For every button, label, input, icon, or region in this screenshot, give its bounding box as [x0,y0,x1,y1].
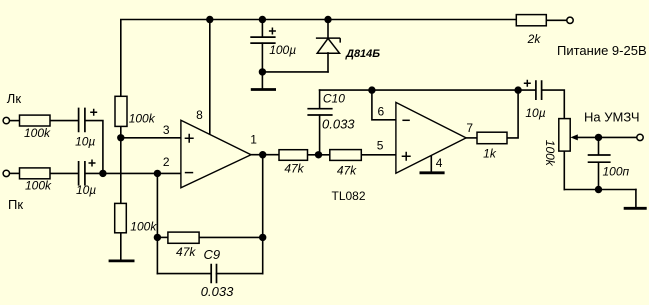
wire node to zener anode [262,71,328,73]
wire op-amp U1 output [251,154,279,156]
junction divider pin3 [117,134,124,141]
resistor 1k [477,132,507,144]
wire node to C 100n [598,137,600,154]
capacitor C10 plates [307,109,332,115]
svg-text:47k: 47k [176,245,196,259]
junction pin6 node [368,86,375,93]
wire pin2 line [86,172,181,174]
wire C 100n to bottom node [598,163,600,190]
wire output1 vertical [262,155,264,274]
svg-text:100п: 100п [603,165,630,179]
junction C10 node [315,151,322,158]
wire pin3 line [121,137,181,139]
capacitor 10u row2 plates [79,161,85,186]
svg-text:2: 2 [163,155,170,169]
ground bar pin4 [420,171,445,174]
wire input1 terminal to R 100k [10,120,20,122]
wire C10 upper lead [319,90,321,108]
plus sign capacitor 10u row2 [89,160,96,167]
svg-text:10µ: 10µ [76,183,96,197]
wire R 100k to C 10u row1 [50,120,78,122]
op-amp U2 triangle [396,102,466,173]
svg-text:2k: 2k [527,32,542,46]
wire rail to C 100u top [261,20,263,38]
junction feedback 47k right [259,234,266,241]
junction 100u ground node [259,68,266,75]
resistor 100k input1 [20,115,51,126]
wire 1k to feedback node [507,90,518,138]
wire pin8 supply to op-amp U1 [209,20,211,135]
capacitor 100n plates [588,155,611,162]
wire top supply rail [121,20,517,97]
junction feedback top node [514,86,521,93]
wire pin2 node down to feedback [156,173,158,273]
wire 47k to output vertical [199,236,263,238]
ground bar under 100u [251,88,276,91]
junction rail 100u [259,16,266,23]
resistor 100k divider bottom [115,203,127,232]
svg-text:100k: 100k [543,140,557,167]
capacitor 10u row1 plates [79,108,85,133]
wire top feedback line [320,89,518,91]
wire to ground right [635,190,637,207]
terminal input2 [3,170,9,176]
capacitor 10u output plates [536,80,542,100]
svg-text:47k: 47k [284,162,304,176]
op-amp U1 triangle [181,120,251,188]
resistor 47k feedback [168,232,199,243]
svg-text:4: 4 [436,156,443,170]
svg-text:5: 5 [377,138,384,152]
wire feedback node to 47k [157,236,168,238]
resistor 2k [516,15,546,26]
svg-text:7: 7 [466,121,473,135]
plus sign capacitor 100u [269,28,276,35]
svg-text:TL082: TL082 [332,189,366,203]
svg-text:10µ: 10µ [75,134,95,148]
resistor 100k divider top [115,96,127,126]
minus sign op-amp U1 [185,172,193,174]
junction 100n bottom node [595,186,602,193]
wire zener anode lead [327,53,329,72]
resistor 47k output1 [279,150,308,161]
wire wiper to output terminal [577,136,637,138]
svg-text:0.033: 0.033 [201,284,234,299]
wire bottom node line [564,189,636,191]
svg-text:47k: 47k [337,164,357,178]
svg-text:C9: C9 [204,247,221,262]
svg-text:1k: 1k [483,146,497,160]
svg-text:Пк: Пк [8,197,23,212]
potentiometer wiper arrow [570,134,577,140]
wire 2k to power terminal [546,19,567,21]
svg-text:0.033: 0.033 [322,117,355,132]
wire between 47k resistors [308,154,330,156]
junction feedback 47k left [154,234,161,241]
wire C10 lower lead [319,115,321,155]
plus sign capacitor 10u output [524,80,531,87]
ground bar bottom right [624,207,647,210]
ground bar under divider [109,259,135,262]
wire C 10u out to pot top [542,90,564,119]
wire pin4 to ground [430,156,432,172]
svg-text:100k: 100k [24,126,51,140]
svg-text:Питание 9-25В: Питание 9-25В [557,43,647,58]
plus sign op-amp U1 [185,134,194,143]
wire 47k to pin5 [361,154,396,156]
resistor 100k input2 [20,168,51,179]
plus sign capacitor 10u row1 [90,109,97,116]
junction input merge [99,170,106,177]
junction pin2 feedback [154,170,161,177]
wire C 100u bottom to ground node [261,43,263,88]
svg-text:10µ: 10µ [525,106,545,120]
svg-text:Д814Б: Д814Б [345,48,380,60]
svg-text:100k: 100k [25,179,52,193]
wire rail to zener cathode [327,20,329,39]
wire pin7 output [466,137,477,139]
terminal output [637,134,643,140]
resistor 47k to pin5 [330,150,362,161]
minus sign op-amp U2 [402,119,409,121]
wire pin6 branch [372,90,396,120]
terminal input1 [3,117,9,123]
junction rail pin8 [206,16,213,23]
junction rail zener [324,16,331,23]
wire R 100k to C 10u row2 [50,172,78,174]
junction output1 [259,151,266,158]
svg-text:100k: 100k [129,112,156,126]
svg-text:100k: 100k [130,220,157,234]
zener diode D814B [316,38,340,53]
svg-text:8: 8 [196,108,203,122]
capacitor C9 plates [211,264,216,284]
capacitor 100u plates [250,37,275,43]
wire input2 terminal to R 100k [10,172,20,174]
potentiometer 100k body [559,119,570,152]
svg-text:1: 1 [250,133,257,147]
svg-text:На УМЗЧ: На УМЗЧ [584,110,640,125]
junction wiper node [595,134,602,141]
wire feedback bottom to C9 [157,273,211,275]
terminal power [567,17,573,23]
wire node to C 10u out [518,89,535,91]
wire C 10u row1 to merge node [86,121,103,174]
svg-text:100µ: 100µ [269,43,296,57]
svg-text:C10: C10 [323,91,345,105]
wire pot bottom [563,151,565,189]
wire C9 to output vertical [217,273,263,275]
svg-text:Лк: Лк [7,91,22,106]
plus sign op-amp U2 [402,152,411,161]
wire divider vertical [120,126,122,203]
wire R 100k bottom to ground [120,233,122,259]
svg-text:6: 6 [378,104,385,118]
svg-text:3: 3 [163,123,170,137]
